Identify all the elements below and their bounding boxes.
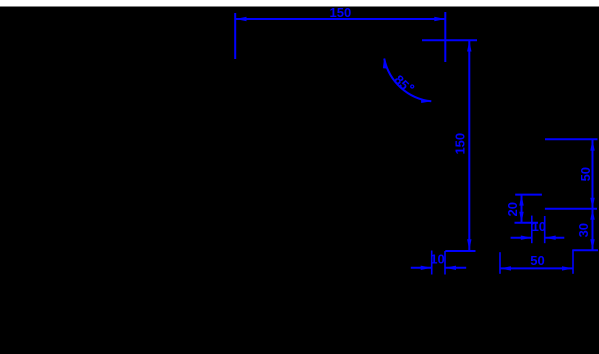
- dimension 20: top arrow: [519, 195, 523, 206]
- dimension 150 top: value label: [330, 5, 352, 20]
- svg-text:20: 20: [505, 202, 520, 216]
- dimension 50 upper right: dimension line: [592, 140, 594, 209]
- dimension 10 right: value label: [532, 219, 546, 234]
- dimension 150 vertical: bottom arrow: [467, 239, 471, 250]
- dimension 10 right: left arrow: [521, 236, 532, 240]
- dimension 50 bottom: left arrow: [500, 266, 511, 270]
- dimension 10 right: dimension line right tail: [545, 237, 565, 239]
- dimension 50 upper right: top extension line: [545, 138, 598, 140]
- dimension 20: dimension line: [521, 195, 523, 223]
- svg-text:50: 50: [578, 167, 593, 181]
- dimension 150 vertical: value label: [453, 133, 468, 155]
- dimension 150 vertical: top extension line: [422, 39, 477, 41]
- dimension 30: top arrow: [590, 209, 594, 220]
- dimension 50 upper right: bottom extension line: [545, 208, 597, 210]
- dimension 50 bottom: dimension line: [500, 267, 573, 269]
- dimension 10 right: right arrow: [545, 236, 556, 240]
- dimension 150 top: extension line right: [444, 12, 446, 62]
- dimension 30: dimension line: [592, 209, 594, 250]
- dimension 150 top: left arrow: [236, 17, 247, 21]
- dimension 150 vertical: top arrow: [467, 41, 471, 52]
- dimension 50 bottom: value label: [530, 253, 544, 268]
- dimension 10 bottom: extension line left: [431, 251, 433, 275]
- dimension 150 vertical: dimension line: [468, 41, 470, 251]
- dimension 10 bottom: right arrow: [445, 266, 456, 270]
- dimension 30: value label: [576, 223, 591, 237]
- dimension 30: bottom arrow: [590, 239, 594, 250]
- dimension 30: bottom extension line: [572, 249, 598, 251]
- dimension 10 right: extension line right: [544, 216, 546, 243]
- dimension 10 bottom: extension line right: [444, 251, 446, 275]
- svg-text:10: 10: [532, 219, 546, 234]
- dimension 20: top extension line: [515, 194, 542, 196]
- dimension 85 degrees: lower arrow: [421, 99, 432, 103]
- dimension 150 vertical: bottom extension line: [445, 250, 475, 252]
- white top strip: [0, 0, 599, 7]
- svg-text:30: 30: [576, 223, 591, 237]
- dimension 20: value label: [505, 202, 520, 216]
- dimension 10 bottom: value label: [430, 251, 444, 266]
- dimension 50 upper right: top arrow: [590, 140, 594, 151]
- dimension 50 bottom: extension line right: [572, 250, 574, 274]
- dimension 85 degrees: upper arrow: [383, 58, 388, 68]
- dimension 10 bottom: dimension line left tail: [411, 267, 432, 269]
- svg-text:150: 150: [453, 133, 468, 155]
- dimension 20: bottom arrow: [519, 212, 523, 223]
- dimension 85 degrees: value label: [391, 72, 413, 93]
- dimension 20: bottom extension line: [515, 222, 539, 224]
- dimension 150 top: extension line left: [234, 13, 236, 59]
- dimension 50 upper right: value label: [578, 167, 593, 181]
- svg-text:150: 150: [330, 5, 352, 20]
- dimension 50 bottom: right arrow: [562, 266, 573, 270]
- dimension 150 top: dimension line: [236, 18, 446, 20]
- dimension 50 upper right: bottom arrow: [590, 198, 594, 209]
- dimension 10 bottom: left arrow: [421, 266, 432, 270]
- dimension 150 top: right arrow: [434, 17, 445, 21]
- svg-text:10: 10: [430, 251, 444, 266]
- dimension 10 bottom: dimension line right tail: [445, 267, 466, 269]
- dimension 10 right: dimension line left tail: [511, 237, 532, 239]
- dimension 50 bottom: extension line left: [499, 252, 501, 274]
- dimension 10 right: extension line left: [531, 216, 533, 244]
- dimension 85 degrees: arc: [384, 59, 431, 102]
- svg-text:50: 50: [530, 253, 544, 268]
